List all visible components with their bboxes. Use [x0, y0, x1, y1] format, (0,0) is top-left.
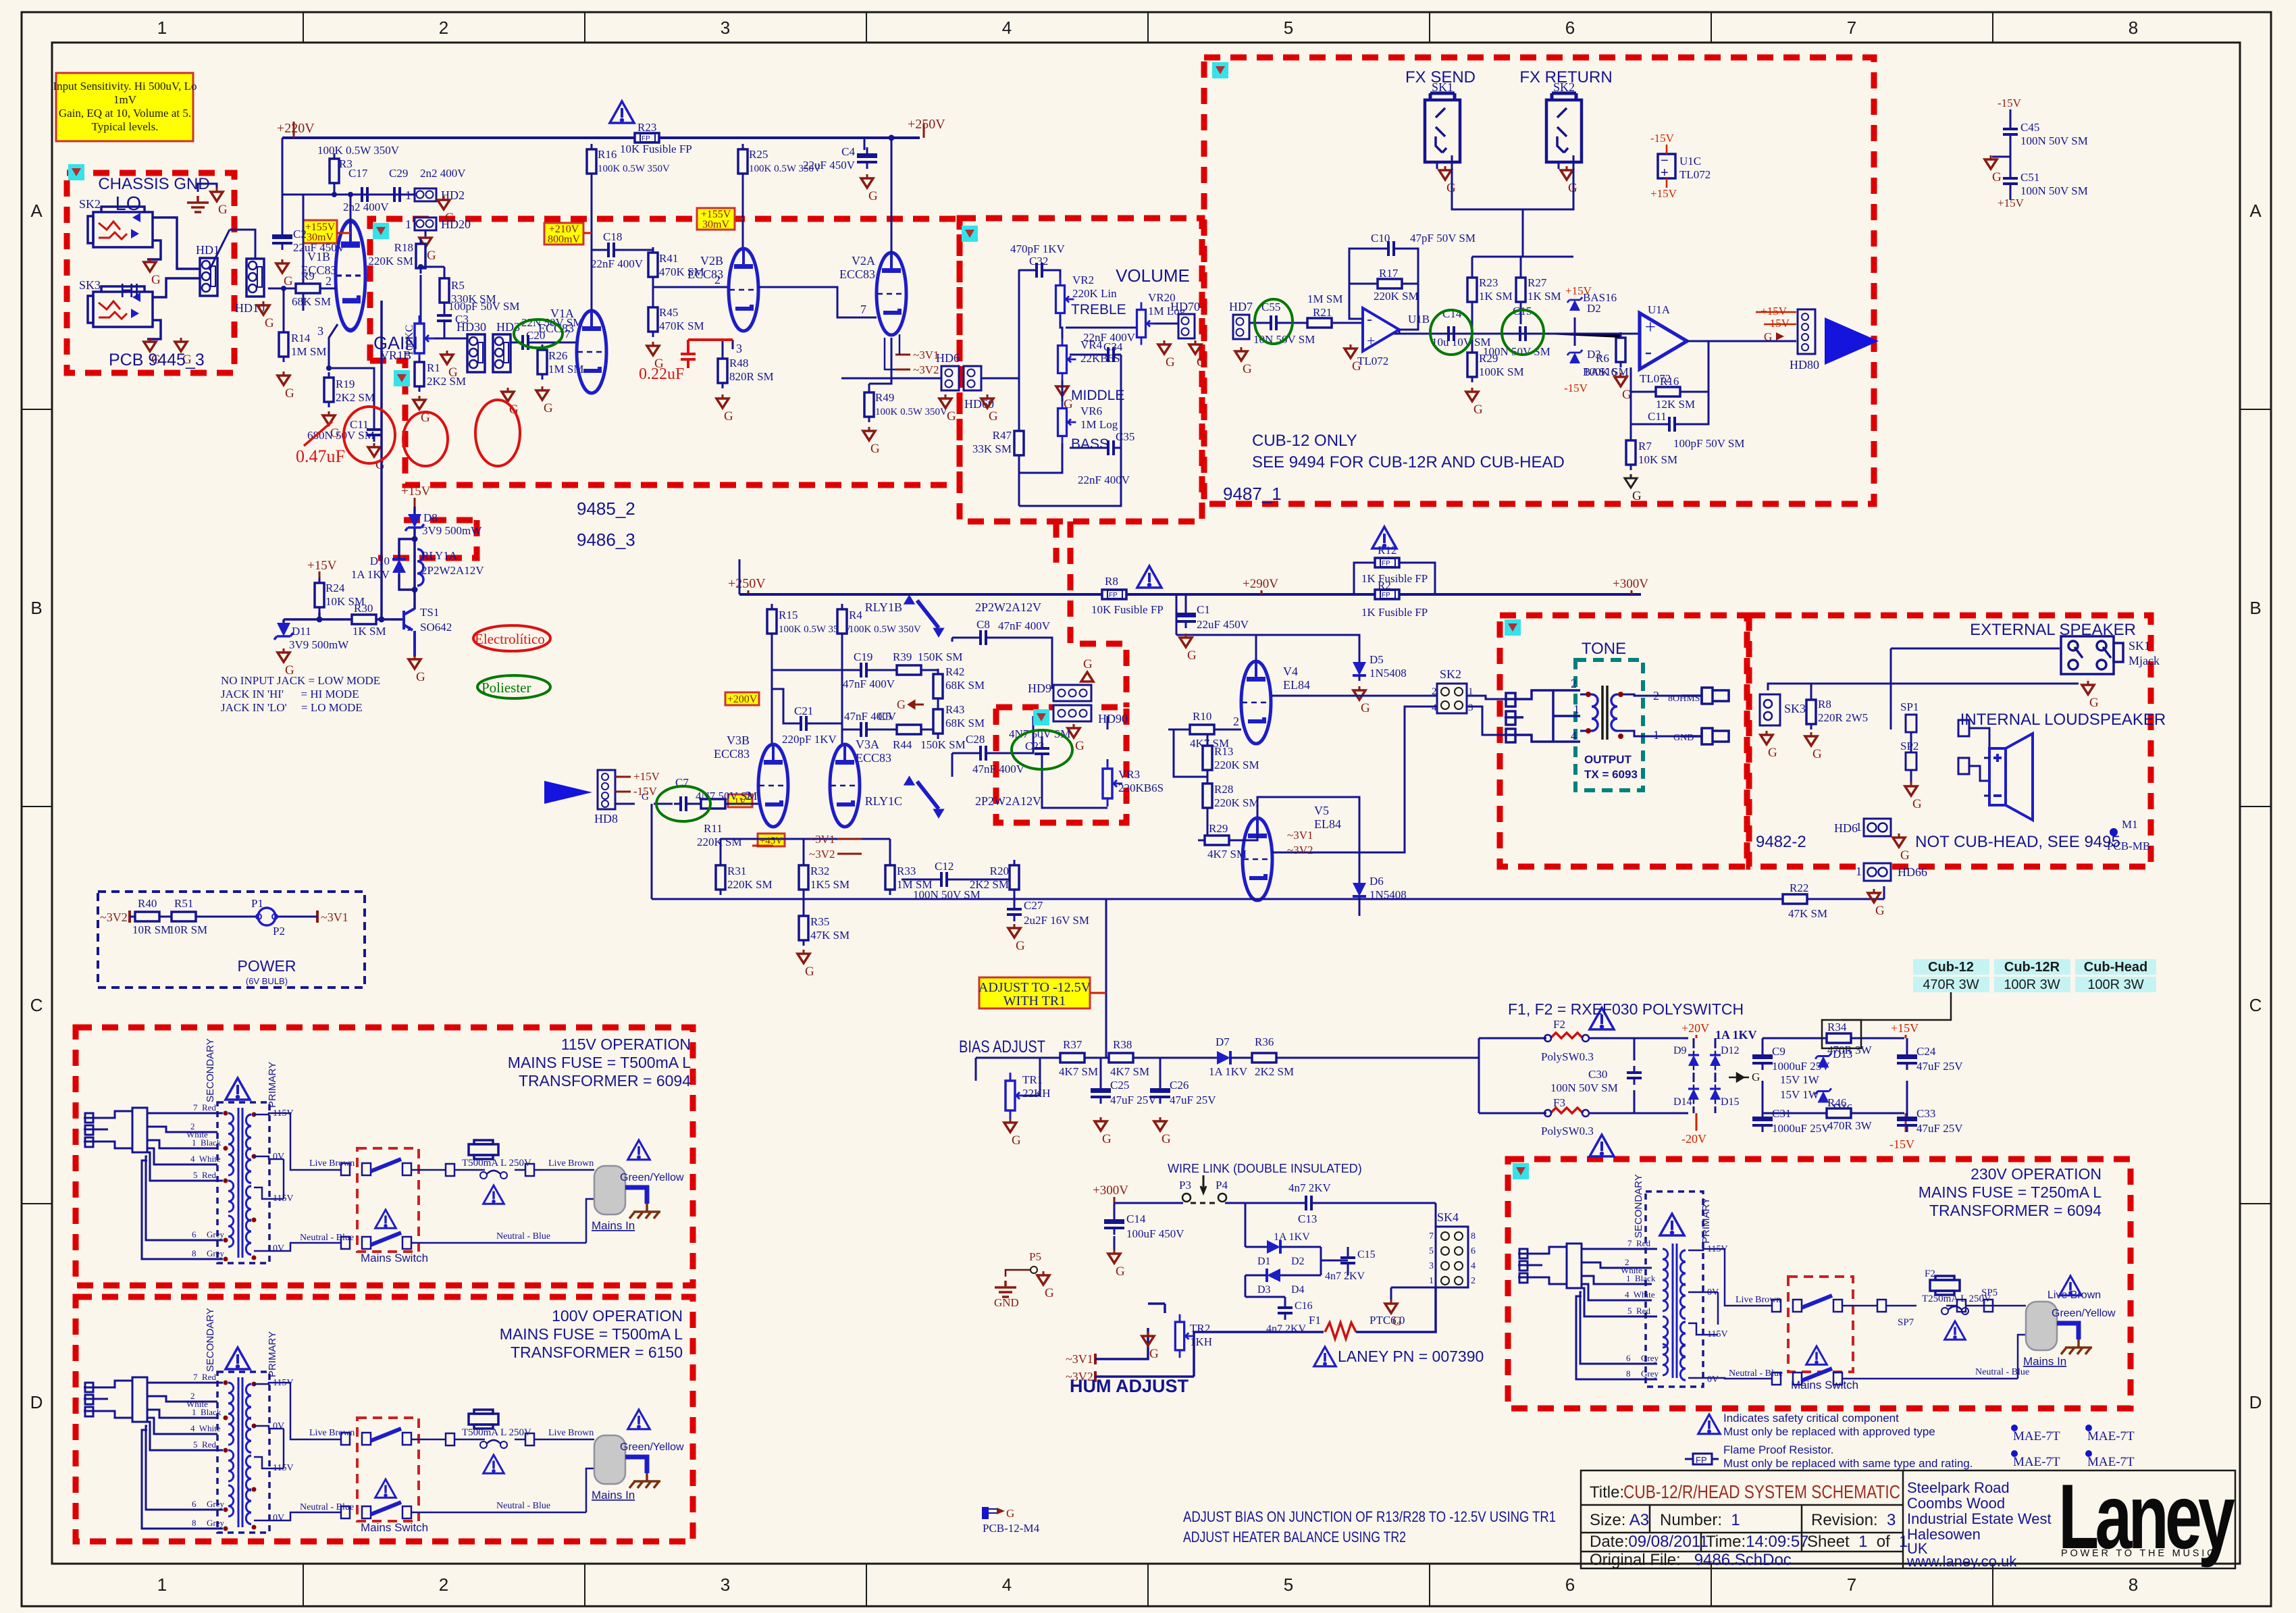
svg-text:C35: C35 [1116, 430, 1134, 443]
svg-text:~3V1: ~3V1 [1066, 1352, 1093, 1366]
svg-text:47uF 25V: 47uF 25V [1916, 1122, 1963, 1135]
svg-text:R21: R21 [1313, 306, 1332, 319]
svg-text:SECONDARY: SECONDARY [1633, 1174, 1644, 1238]
svg-text:47uF 25V: 47uF 25V [1110, 1094, 1157, 1106]
svg-text:C: C [30, 995, 43, 1015]
svg-text:10u 10V SM: 10u 10V SM [1432, 336, 1491, 349]
svg-text:100K 0.5W 350V: 100K 0.5W 350V [598, 163, 670, 174]
svg-text:R44 150K SM: R44 150K SM [893, 738, 966, 751]
svg-text:1K SM: 1K SM [1479, 290, 1513, 303]
svg-text:~3V1: ~3V1 [1287, 829, 1313, 842]
svg-text:1K SM: 1K SM [353, 625, 386, 638]
svg-text:1000uF 25V: 1000uF 25V [1772, 1122, 1830, 1135]
svg-text:HD6: HD6 [1834, 821, 1858, 835]
svg-text:~3V2: ~3V2 [100, 911, 128, 924]
svg-text:Mains Switch: Mains Switch [361, 1252, 428, 1264]
svg-text:1KH: 1KH [1190, 1335, 1212, 1348]
svg-text:-15V: -15V [1889, 1137, 1914, 1151]
svg-text:100uF 450V: 100uF 450V [1126, 1227, 1184, 1240]
svg-text:47nF 400V: 47nF 400V [972, 763, 1025, 775]
svg-text:HD90: HD90 [1098, 712, 1128, 725]
svg-text:C16: C16 [1295, 1300, 1313, 1312]
svg-text:10K Fusible FP: 10K Fusible FP [1091, 603, 1164, 616]
svg-text:4n7 2KV: 4n7 2KV [1325, 1271, 1365, 1282]
svg-text:D2: D2 [1291, 1256, 1305, 1267]
svg-text:220K SM: 220K SM [697, 836, 742, 848]
svg-text:Neutral - Blue: Neutral - Blue [1729, 1368, 1783, 1379]
svg-text:R23: R23 [637, 121, 656, 134]
svg-text:MAE-7T: MAE-7T [2013, 1429, 2060, 1443]
svg-text:P1: P1 [251, 897, 263, 910]
svg-text:Grey: Grey [207, 1248, 224, 1258]
svg-text:POWER: POWER [238, 957, 296, 975]
svg-text:820R SM: 820R SM [729, 370, 774, 383]
svg-text:~3V2: ~3V2 [809, 848, 835, 861]
svg-text:68K SM: 68K SM [945, 717, 985, 729]
svg-text:47uF 25V: 47uF 25V [1916, 1060, 1963, 1073]
svg-text:1: 1 [405, 217, 411, 231]
svg-text:G: G [1764, 330, 1772, 343]
svg-text:230V OPERATION: 230V OPERATION [1971, 1165, 2102, 1183]
svg-text:Number: 1: Number: 1 [1660, 1511, 1740, 1529]
svg-text:TR2: TR2 [1190, 1322, 1210, 1335]
svg-text:G: G [1752, 1071, 1760, 1083]
svg-text:7: 7 [860, 303, 866, 316]
svg-text:EXTERNAL SPEAKER: EXTERNAL SPEAKER [1970, 621, 2136, 639]
svg-text:220K SM: 220K SM [1214, 759, 1259, 771]
svg-text:C34: C34 [1103, 340, 1123, 353]
svg-text:SEE 9494 FOR CUB-12R AND CUB-H: SEE 9494 FOR CUB-12R AND CUB-HEAD [1252, 453, 1565, 471]
svg-text:0V: 0V [273, 1152, 284, 1162]
svg-text:47nF 400V: 47nF 400V [998, 619, 1051, 632]
svg-text:C5: C5 [878, 710, 891, 723]
svg-text:JACK IN 'LO' = LO MODE: JACK IN 'LO' = LO MODE [221, 701, 363, 714]
svg-text:D15: D15 [1721, 1096, 1740, 1108]
svg-text:F3: F3 [1553, 1096, 1565, 1109]
svg-text:D12: D12 [1721, 1045, 1740, 1056]
svg-text:30mV: 30mV [307, 232, 334, 243]
svg-text:HD6: HD6 [936, 351, 960, 365]
svg-text:Mains Switch: Mains Switch [1791, 1379, 1858, 1391]
svg-text:220R 2W5: 220R 2W5 [1818, 711, 1868, 724]
svg-text:HD70: HD70 [1170, 300, 1200, 313]
svg-text:V3A: V3A [856, 738, 879, 751]
svg-text:P4: P4 [1216, 1179, 1228, 1192]
svg-text:GAIN: GAIN [373, 333, 418, 353]
svg-text:RLY1C: RLY1C [865, 794, 902, 808]
svg-text:B: B [30, 598, 42, 618]
svg-text:R14: R14 [291, 332, 311, 344]
svg-text:D1: D1 [1257, 1256, 1271, 1267]
svg-text:1K Fusible FP: 1K Fusible FP [1361, 572, 1428, 585]
svg-text:1K Fusible FP: 1K Fusible FP [1361, 606, 1428, 619]
svg-text:ECC83: ECC83 [687, 267, 723, 281]
svg-text:220K SM: 220K SM [1374, 290, 1419, 303]
svg-text:EL84: EL84 [1314, 817, 1341, 831]
svg-text:LO: LO [115, 193, 142, 215]
svg-text:~3V2: ~3V2 [913, 363, 939, 376]
svg-text:V1A: V1A [550, 307, 574, 320]
svg-text:+15V: +15V [1565, 284, 1592, 297]
svg-text:Original File: 9486.SchDoc: Original File: 9486.SchDoc [1590, 1551, 1792, 1569]
svg-text:1 Black: 1 Black [192, 1137, 221, 1148]
svg-text:2P2W2A12V: 2P2W2A12V [975, 794, 1041, 808]
svg-text:M1: M1 [2122, 818, 2138, 831]
svg-text:C24: C24 [1916, 1045, 1936, 1058]
svg-text:D14: D14 [1673, 1096, 1692, 1108]
svg-text:15V 1W: 15V 1W [1780, 1073, 1820, 1086]
svg-text:U1C: U1C [1679, 155, 1701, 168]
svg-text:FX RETURN: FX RETURN [1519, 68, 1612, 86]
svg-text:SK2: SK2 [1440, 667, 1461, 681]
svg-text:V1B: V1B [307, 250, 330, 263]
svg-text:0.47uF: 0.47uF [296, 446, 345, 466]
svg-text:Neutral - Blue: Neutral - Blue [300, 1233, 354, 1243]
svg-text:U1A: U1A [1648, 303, 1671, 316]
svg-text:PRIMARY: PRIMARY [267, 1062, 278, 1108]
svg-text:6: 6 [1626, 1353, 1631, 1363]
svg-text:4K7 SM: 4K7 SM [1110, 1065, 1149, 1078]
svg-text:1M SM: 1M SM [1307, 292, 1342, 305]
svg-text:R51: R51 [174, 897, 193, 910]
svg-text:47pF 50V SM: 47pF 50V SM [1410, 232, 1476, 245]
svg-text:C13: C13 [1298, 1212, 1317, 1225]
svg-text:Indicates safety critical comp: Indicates safety critical component [1723, 1412, 1899, 1425]
svg-text:HD1: HD1 [196, 243, 219, 257]
svg-text:BAS16: BAS16 [1583, 365, 1617, 378]
svg-text:R23: R23 [1479, 276, 1498, 289]
svg-text:1: 1 [405, 188, 411, 202]
svg-text:1N5408: 1N5408 [1369, 667, 1407, 680]
svg-text:SP1: SP1 [1900, 700, 1919, 713]
svg-text:3V9 500mW: 3V9 500mW [289, 638, 349, 651]
svg-text:470K SM: 470K SM [659, 319, 704, 332]
svg-text:1V: 1V [734, 796, 747, 807]
svg-text:R49: R49 [875, 391, 894, 404]
svg-text:HD30: HD30 [456, 320, 486, 334]
svg-text:Cub-Head: Cub-Head [2084, 960, 2147, 975]
svg-text:2: 2 [439, 1574, 448, 1595]
svg-text:8OHMS: 8OHMS [1668, 694, 1700, 704]
svg-text:+15V: +15V [1650, 187, 1677, 200]
svg-text:R41: R41 [659, 252, 678, 265]
svg-text:0.22uF: 0.22uF [639, 365, 684, 383]
svg-text:1: 1 [157, 1574, 167, 1595]
svg-text:+250V: +250V [728, 576, 766, 591]
svg-text:100K 0.5W 350V: 100K 0.5W 350V [849, 624, 921, 635]
svg-text:FP: FP [1382, 592, 1390, 599]
svg-text:15V 1W: 15V 1W [1780, 1088, 1820, 1101]
svg-text:A: A [2249, 201, 2262, 221]
svg-text:0V: 0V [273, 1244, 284, 1254]
svg-text:F2: F2 [1925, 1269, 1935, 1279]
svg-text:R26: R26 [548, 349, 567, 362]
svg-text:R24: R24 [325, 582, 345, 594]
svg-text:C12: C12 [935, 860, 954, 873]
svg-text:R30: R30 [354, 602, 373, 615]
svg-text:V3B: V3B [727, 734, 750, 747]
svg-text:2: 2 [1471, 1276, 1476, 1286]
svg-text:MIDDLE: MIDDLE [1071, 388, 1124, 403]
svg-text:47K SM: 47K SM [810, 929, 850, 942]
svg-text:C18: C18 [603, 230, 622, 243]
svg-text:1: 1 [157, 18, 167, 38]
svg-text:PTC6.0: PTC6.0 [1369, 1314, 1405, 1327]
svg-text:C33: C33 [1916, 1107, 1935, 1120]
svg-text:1K5 SM: 1K5 SM [810, 878, 850, 891]
svg-text:Size: A3: Size: A3 [1590, 1511, 1649, 1529]
svg-text:4: 4 [1471, 1261, 1476, 1271]
svg-text:2K2 SM: 2K2 SM [336, 391, 375, 404]
svg-text:Gain, EQ at 10, Volume at 5.: Gain, EQ at 10, Volume at 5. [59, 107, 191, 120]
svg-text:100R 3W: 100R 3W [2087, 977, 2143, 992]
svg-text:R43: R43 [945, 703, 964, 716]
svg-text:R40: R40 [138, 897, 157, 910]
svg-text:Title:: Title: [1590, 1483, 1624, 1502]
svg-text:F1, F2 = RXEF030 POLYSWITCH: F1, F2 = RXEF030 POLYSWITCH [1508, 1000, 1744, 1018]
svg-text:-15V: -15V [1766, 317, 1790, 330]
svg-text:C14: C14 [1126, 1212, 1146, 1225]
svg-text:1: 1 [1856, 820, 1862, 834]
svg-text:Date:09/08/2011: Date:09/08/2011 [1590, 1533, 1708, 1551]
svg-text:TRANSFORMER = 6094: TRANSFORMER = 6094 [1929, 1202, 2102, 1219]
svg-text:TX = 6093: TX = 6093 [1584, 768, 1638, 781]
svg-text:R16: R16 [1660, 375, 1679, 388]
svg-text:Cub-12: Cub-12 [1928, 960, 1974, 975]
svg-text:R20: R20 [990, 865, 1009, 877]
svg-text:R7: R7 [1638, 440, 1652, 453]
svg-text:~3V1: ~3V1 [913, 349, 939, 361]
svg-text:3: 3 [736, 342, 742, 355]
svg-text:R18: R18 [394, 241, 413, 254]
svg-text:470R 3W: 470R 3W [1827, 1119, 1873, 1132]
svg-text:1: 1 [1653, 728, 1659, 742]
svg-text:C26: C26 [1170, 1079, 1189, 1092]
svg-text:G: G [1006, 1507, 1014, 1520]
svg-text:Live Brown: Live Brown [309, 1158, 355, 1169]
svg-text:22uF 450V: 22uF 450V [803, 159, 856, 172]
svg-text:R31: R31 [727, 865, 746, 877]
svg-text:Typical levels.: Typical levels. [92, 120, 159, 133]
svg-text:P5: P5 [1029, 1250, 1041, 1263]
svg-text:+15V: +15V [1760, 305, 1788, 317]
svg-text:+: + [1661, 165, 1669, 180]
svg-text:VR3: VR3 [1118, 768, 1140, 781]
svg-text:8: 8 [192, 1248, 197, 1258]
svg-text:(6V BULB): (6V BULB) [246, 976, 288, 986]
svg-text:R47: R47 [993, 429, 1012, 442]
svg-text:C27: C27 [1024, 899, 1043, 912]
svg-text:-15V: -15V [1998, 97, 2022, 109]
svg-text:ECC83: ECC83 [839, 267, 875, 281]
svg-text:220K Lin: 220K Lin [1072, 287, 1117, 300]
svg-text:R28: R28 [1214, 783, 1233, 796]
svg-text:PCB-12-M4: PCB-12-M4 [983, 1522, 1040, 1535]
svg-text:Live Brown: Live Brown [1736, 1295, 1781, 1305]
svg-text:CHASSIS GND: CHASSIS GND [98, 175, 209, 193]
svg-text:Electrolítico: Electrolítico [475, 631, 545, 647]
svg-text:Green/Yellow: Green/Yellow [620, 1172, 684, 1183]
svg-text:C17: C17 [348, 167, 368, 180]
svg-text:MAE-7T: MAE-7T [2013, 1455, 2060, 1469]
svg-text:FP: FP [642, 135, 650, 143]
svg-text:D4: D4 [1291, 1284, 1305, 1296]
svg-text:8: 8 [1626, 1368, 1631, 1379]
svg-text:2: 2 [746, 789, 752, 802]
svg-text:1A 1KV: 1A 1KV [1274, 1231, 1310, 1243]
svg-text:C45: C45 [2020, 121, 2039, 134]
svg-text:www.laney.co.uk: www.laney.co.uk [1906, 1553, 2017, 1570]
svg-text:Coombs Wood: Coombs Wood [1907, 1495, 2005, 1512]
svg-text:2P2W2A12V: 2P2W2A12V [975, 600, 1041, 614]
svg-text:+15V: +15V [633, 770, 660, 783]
svg-text:100R 3W: 100R 3W [2004, 977, 2060, 992]
svg-text:C10: C10 [1371, 232, 1390, 245]
svg-text:R48: R48 [729, 357, 748, 369]
svg-text:8: 8 [2129, 18, 2138, 38]
svg-text:R42: R42 [945, 665, 964, 678]
svg-text:-15V: -15V [1650, 132, 1675, 145]
svg-text:Mains In: Mains In [2023, 1355, 2066, 1368]
svg-text:SO642: SO642 [420, 621, 452, 634]
svg-text:220K SM: 220K SM [368, 255, 413, 267]
svg-text:2P2W2A12V: 2P2W2A12V [421, 564, 484, 577]
svg-text:3: 3 [1468, 702, 1473, 713]
svg-text:3: 3 [721, 1574, 730, 1595]
svg-text:R36: R36 [1255, 1035, 1274, 1048]
svg-text:HD8: HD8 [594, 812, 618, 825]
svg-text:D6: D6 [1369, 875, 1384, 888]
svg-text:22nF 400V: 22nF 400V [1078, 473, 1130, 486]
svg-text:LANEY PN = 007390: LANEY PN = 007390 [1338, 1348, 1484, 1365]
svg-text:R4: R4 [849, 609, 862, 621]
svg-text:FP: FP [1696, 1455, 1707, 1465]
svg-text:6: 6 [192, 1229, 197, 1239]
svg-text:R38: R38 [1113, 1038, 1132, 1051]
svg-text:R16: R16 [598, 148, 617, 161]
svg-text:4K7 SM: 4K7 SM [1059, 1065, 1098, 1078]
svg-text:2: 2 [1571, 677, 1577, 690]
svg-text:JACK IN 'HI' = HI MODE: JACK IN 'HI' = HI MODE [221, 688, 359, 700]
svg-text:Neutral - Blue: Neutral - Blue [496, 1231, 550, 1241]
svg-text:~3V1: ~3V1 [809, 833, 835, 846]
svg-text:R34: R34 [1827, 1021, 1847, 1033]
svg-text:PRIMARY: PRIMARY [1700, 1198, 1712, 1244]
svg-text:-15V: -15V [1564, 382, 1588, 394]
svg-text:V2A: V2A [852, 254, 875, 267]
svg-text:R1: R1 [427, 361, 440, 374]
svg-text:D3: D3 [1587, 348, 1601, 361]
svg-text:+15V: +15V [307, 559, 337, 573]
svg-text:R39 150K SM: R39 150K SM [893, 650, 962, 663]
svg-text:+45V: +45V [760, 836, 783, 846]
svg-text:3: 3 [317, 324, 323, 338]
svg-text:C8: C8 [976, 618, 990, 631]
svg-text:+290V: +290V [1243, 577, 1278, 591]
svg-text:4K7 SM: 4K7 SM [1207, 848, 1247, 861]
svg-text:R2: R2 [1378, 579, 1391, 592]
svg-text:WIRE LINK (DOUBLE INSULATED): WIRE LINK (DOUBLE INSULATED) [1168, 1162, 1362, 1175]
svg-text:7 Red: 7 Red [193, 1102, 216, 1112]
svg-text:R8: R8 [1105, 575, 1118, 588]
svg-text:33K SM: 33K SM [972, 442, 1012, 455]
svg-text:OUTPUT: OUTPUT [1584, 753, 1632, 766]
svg-text:RLY1A: RLY1A [421, 549, 458, 562]
svg-text:BIAS ADJUST: BIAS ADJUST [959, 1038, 1045, 1056]
svg-text:D5: D5 [1369, 653, 1384, 666]
svg-text:100N 50V SM: 100N 50V SM [1483, 345, 1550, 358]
svg-text:R35: R35 [810, 915, 829, 928]
svg-text:Revision: 3: Revision: 3 [1811, 1511, 1896, 1529]
svg-text:30mV: 30mV [702, 219, 729, 230]
svg-text:TL072: TL072 [1357, 355, 1388, 367]
svg-text:C: C [2249, 995, 2262, 1015]
svg-text:Must only be replaced with sam: Must only be replaced with same type and… [1723, 1457, 1973, 1470]
svg-text:12K SM: 12K SM [1656, 398, 1695, 411]
svg-text:G: G [642, 792, 649, 802]
svg-text:470pF 1KV: 470pF 1KV [1010, 242, 1065, 255]
svg-text:VR2: VR2 [1072, 274, 1094, 286]
svg-text:P3: P3 [1179, 1179, 1191, 1192]
svg-text:9482-2: 9482-2 [1756, 833, 1806, 851]
svg-text:+200V: +200V [727, 694, 758, 705]
svg-text:CUB-12 ONLY: CUB-12 ONLY [1252, 432, 1357, 450]
svg-text:+300V: +300V [1613, 577, 1648, 591]
svg-text:R10: R10 [1193, 710, 1211, 723]
svg-text:Input Sensitivity. Hi 500uV, L: Input Sensitivity. Hi 500uV, Lo [53, 80, 197, 93]
svg-text:4: 4 [1002, 18, 1012, 38]
svg-text:470R 3W: 470R 3W [1923, 977, 1979, 992]
svg-text:+250V: +250V [908, 117, 945, 132]
svg-text:R37: R37 [1063, 1038, 1082, 1051]
svg-text:115V OPERATION: 115V OPERATION [561, 1035, 691, 1053]
svg-text:6: 6 [1565, 1574, 1575, 1595]
svg-text:100N 50V SM: 100N 50V SM [2020, 134, 2088, 147]
svg-text:C32: C32 [1029, 255, 1048, 267]
svg-text:+15V: +15V [401, 484, 431, 498]
svg-text:100pF 50V SM: 100pF 50V SM [448, 300, 520, 313]
svg-text:7: 7 [1847, 18, 1856, 38]
svg-text:470R 3W: 470R 3W [1827, 1044, 1873, 1056]
svg-text:C11: C11 [1648, 410, 1667, 423]
svg-text:4n7 2KV: 4n7 2KV [1288, 1181, 1332, 1194]
svg-text:1A 1KV: 1A 1KV [351, 568, 390, 581]
svg-text:22uF 450V: 22uF 450V [1197, 618, 1249, 631]
svg-text:2: 2 [439, 18, 448, 38]
svg-text:10R SM: 10R SM [132, 923, 171, 936]
svg-text:4K7 SM: 4K7 SM [1190, 737, 1229, 750]
svg-text:5: 5 [1284, 18, 1293, 38]
svg-text:F1: F1 [1309, 1314, 1321, 1327]
svg-text:CUB-12/R/HEAD SYSTEM SCHEMATIC: CUB-12/R/HEAD SYSTEM SCHEMATIC [1623, 1481, 1900, 1502]
svg-text:V4: V4 [1283, 665, 1298, 678]
svg-text:R11: R11 [704, 822, 723, 835]
svg-text:V2B: V2B [700, 254, 723, 267]
svg-text:R33: R33 [897, 865, 916, 877]
svg-text:R46: R46 [1827, 1096, 1846, 1109]
svg-text:G: G [1083, 657, 1093, 671]
svg-text:A: A [30, 201, 43, 221]
svg-text:G: G [897, 698, 906, 711]
svg-text:1: 1 [1573, 702, 1580, 716]
svg-text:TONE: TONE [1582, 640, 1626, 658]
svg-text:4 White: 4 White [190, 1154, 221, 1164]
svg-text:68K SM: 68K SM [945, 679, 985, 692]
svg-text:0V: 0V [1707, 1375, 1719, 1385]
svg-text:1A 1KV: 1A 1KV [1715, 1028, 1757, 1042]
svg-text:Mains In: Mains In [592, 1219, 635, 1232]
svg-text:47nF 400V: 47nF 400V [843, 677, 895, 690]
